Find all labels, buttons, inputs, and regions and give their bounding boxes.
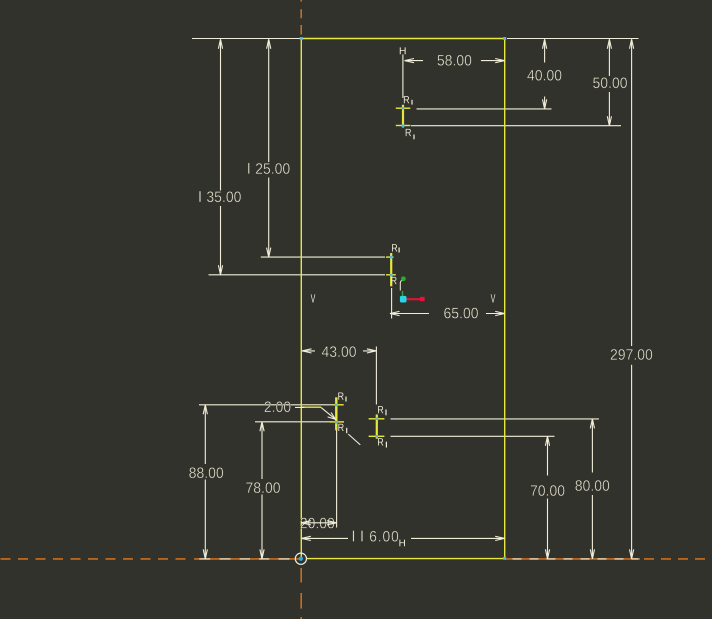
small line B1 vertical <box>335 397 337 430</box>
dimension 80.00 <box>591 420 593 559</box>
dimension 88.00 <box>204 406 206 559</box>
origin point cyan dot <box>299 557 303 561</box>
constraint label H on bottom edge <box>399 540 405 547</box>
witness line 50.00 at small line T bottom <box>411 125 621 127</box>
witness line from top edge to 40/50/297 <box>507 38 639 40</box>
radius label R1 line B1 bottom <box>338 424 343 431</box>
small line M tail top <box>386 256 394 258</box>
dimension 78.00 <box>261 423 263 559</box>
csys y-axis hook line <box>400 280 402 290</box>
small line B1 stub bottom <box>330 421 344 423</box>
vertex small line B2 top <box>376 418 379 421</box>
radius label R1 line M bottom <box>391 277 396 284</box>
horizontal centerline far-right dashes <box>644 558 705 560</box>
right edge of rectangle <box>504 39 506 559</box>
witness line 70.00 at small line B2 bottom <box>391 435 555 437</box>
horizontal centerline solid under right witness <box>505 558 640 560</box>
dimension 40.00 <box>544 40 546 108</box>
constraint label V on left edge <box>311 294 316 302</box>
witness 88/78 dashes over left centerline <box>199 558 289 560</box>
text 2.00 <box>265 401 291 412</box>
radius label R1 line T top <box>404 96 409 103</box>
witness line 88.00 at small line B1 top <box>199 404 333 406</box>
text 58.00 <box>437 55 471 66</box>
text 65.00 <box>444 308 478 319</box>
witness line 125.00 at middle step line <box>261 256 385 258</box>
vertex small line B1 bottom <box>335 421 338 424</box>
vertical centerline below origin <box>300 568 302 619</box>
dimension 50.00 <box>608 40 610 125</box>
text 297.00 <box>611 349 653 360</box>
small line M vertical <box>390 253 392 286</box>
text 50.00 <box>593 77 627 88</box>
text 20.00 <box>300 518 334 529</box>
vertex top-right corner <box>503 37 506 40</box>
vertex small line M bottom <box>390 274 393 277</box>
csys y-axis green dot <box>401 276 406 281</box>
dimension 20.00 <box>301 521 336 525</box>
csys origin cyan square <box>400 296 407 303</box>
bottom edge of rectangle <box>306 558 505 560</box>
witness line 43.00 vertical <box>375 347 377 405</box>
text 116.00 <box>353 531 399 542</box>
text 125.00 <box>248 163 290 174</box>
text 70.00 <box>531 485 565 496</box>
dimension 43.00 <box>302 350 376 352</box>
text 40.00 <box>527 70 561 81</box>
origin point circle <box>295 553 306 564</box>
text 43.00 <box>322 346 356 357</box>
csys x-axis red line <box>407 298 421 300</box>
geometry line for 2.00 offset <box>302 406 321 408</box>
radius label R1 line M top <box>392 244 397 251</box>
dimension 297.00 <box>631 40 633 558</box>
dimension 65.00 <box>390 313 505 315</box>
dimension 125.00 <box>268 40 270 257</box>
vertical centerline above sketch <box>300 0 302 35</box>
radius label R1 line B2 bottom <box>378 438 383 445</box>
radius label R1 line T bottom <box>406 129 411 136</box>
witness line 58.00 vertical <box>402 55 404 99</box>
dimension 58.00 <box>405 60 505 62</box>
text 135.00 <box>199 191 241 202</box>
witness line 65.00 vertical <box>391 288 393 319</box>
small line M tail bottom <box>386 274 396 276</box>
vertex small line B2 bottom <box>376 435 379 438</box>
left edge of rectangle <box>300 39 302 558</box>
csys y-axis green stem <box>402 291 404 297</box>
witness line 135.00 at lower middle line <box>209 274 386 276</box>
vertex small line T top <box>402 107 405 110</box>
vertex small line M top <box>390 256 393 259</box>
small line B2 stub top <box>369 418 385 420</box>
witness line 78.00 at small line B1 bottom <box>255 421 332 423</box>
witness line 20.00 vertical <box>336 426 338 528</box>
horizontal centerline solid under left witness <box>194 558 301 560</box>
text 78.00 <box>246 482 280 493</box>
vertex small line B1 top <box>335 404 338 407</box>
small line B1 stub top <box>333 404 344 406</box>
text 80.00 <box>575 480 609 491</box>
small line T stub bottom <box>396 125 411 127</box>
dimension 70.00 <box>547 437 549 558</box>
dimension 2.00 leader <box>295 407 336 419</box>
csys x-axis red square <box>420 297 425 301</box>
stray leader segment between B1 and B2 <box>348 434 360 445</box>
witness line 80.00 at small line B2 top <box>391 418 600 420</box>
vertex small line T bottom <box>402 124 405 127</box>
vertex top-left corner <box>300 37 303 40</box>
radius label R1 line B2 top <box>378 406 383 413</box>
small line T stub top <box>396 107 411 109</box>
small line B2 stub bottom <box>369 435 385 437</box>
radius label R1 line B1 top <box>338 392 343 399</box>
horizontal centerline far-left dashes <box>1 558 186 560</box>
constraint label H on top witness <box>400 47 406 54</box>
vertex bottom-right corner <box>503 557 506 560</box>
dimension 135.00 <box>220 40 222 274</box>
witness 297/80/70 dashes over right centerline <box>513 558 639 560</box>
top edge of rectangle <box>301 38 504 40</box>
constraint label V on right edge <box>491 294 496 302</box>
dimension 116.00 <box>301 537 504 539</box>
witness line from top edge to 135.00/125.00 <box>192 38 301 40</box>
small line B2 vertical <box>376 415 378 439</box>
witness line 40.00 at small line T top <box>417 108 552 110</box>
text 88.00 <box>189 467 223 478</box>
small line T vertical <box>402 105 404 128</box>
